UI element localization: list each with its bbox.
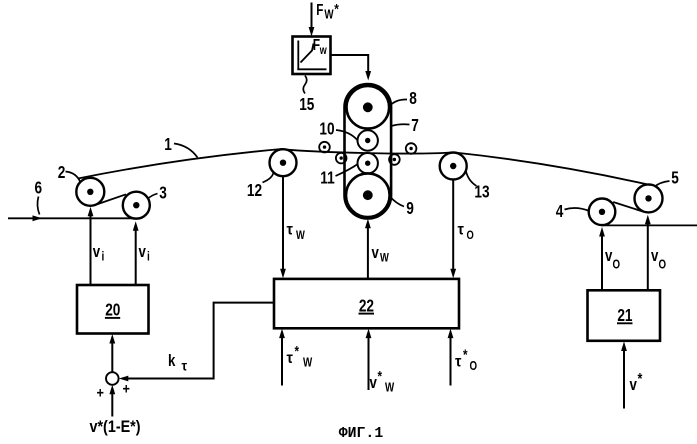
svg-text:W: W [296,229,306,242]
roller 2 [76,178,104,206]
svg-text:7: 7 [411,117,419,136]
leader for label 2 [66,172,81,182]
wire web S-wrap tangent rollers 2-3 [97,194,127,204]
leader for label 11 [336,164,358,176]
label v_O left [605,247,620,272]
svg-text:8: 8 [409,90,417,109]
wire tau*_W setpoint into block 22 [279,329,285,386]
label tau_W [287,221,306,243]
roller 12 [270,149,297,176]
wire web S-wrap tangent rollers 5-4 [613,202,644,212]
svg-text:1: 1 [164,136,172,155]
belt 7 [345,84,392,219]
wire v_i left from block 20 to roller 2 [88,207,94,285]
leader for label 6 [37,197,39,215]
label FW* [316,1,339,22]
svg-text:+: + [123,379,130,396]
block 21 [588,290,661,341]
svg-text:i: i [102,249,105,263]
svg-text:τ: τ [287,221,294,239]
leader for label 10 [336,130,358,140]
wire box 15 to roller 8 [331,55,372,81]
wire FW* input arrow [309,3,315,37]
svg-text:12: 12 [247,182,262,201]
wire v*(1-E*) into summing junction [109,385,115,417]
roller 9 [346,173,390,217]
svg-text:w: w [319,45,328,57]
svg-text:v: v [370,374,378,393]
idler roller outer-left [319,142,330,153]
svg-text:ФИГ.1: ФИГ.1 [339,426,384,442]
svg-text:3: 3 [159,184,167,203]
svg-text:v: v [605,247,613,266]
svg-text:v: v [630,376,638,395]
wire tau_O from roller 13 to block 22 [450,180,456,279]
wire v* into block 21 [621,342,627,409]
roller 10 [358,130,378,150]
label Fw inside box 15 [313,35,328,57]
idler roller inner-left [336,153,347,164]
leader for label 1 [174,144,198,158]
svg-text:i: i [147,249,150,263]
svg-text:11: 11 [320,169,335,188]
leader for label 15 [303,76,307,94]
leader for label 5 [655,181,670,187]
label v_O right [651,247,666,272]
svg-text:O: O [467,229,474,242]
svg-text:O: O [470,360,478,373]
wire tau_W from roller 12 to block 22 [280,176,286,278]
leader for label 3 [148,194,158,200]
wire v_O left from block 21 to roller 4 [599,227,605,290]
svg-text:10: 10 [319,120,334,139]
svg-text:W: W [303,356,313,369]
wire v_O right from block 21 to roller 5 [645,215,651,291]
wire v*_W setpoint into block 22 [366,329,372,390]
svg-text:15: 15 [299,96,314,115]
wire summing junction to block 20 [109,334,115,372]
label v* [630,371,643,395]
wire web line 1 left span [78,149,283,179]
label v_i right [139,243,150,264]
limiter curve [301,44,314,63]
svg-text:W: W [385,381,395,394]
label v*_W [370,368,395,395]
roller 4 [589,199,616,226]
roller 13 [440,153,467,180]
label v_W [372,244,390,265]
svg-text:v: v [651,247,659,266]
svg-text:6: 6 [35,179,43,198]
block 22 [274,279,459,328]
leader for label 8 [389,99,407,106]
idler roller inner-right [389,154,400,165]
roller 5 [635,184,663,212]
svg-text:*: * [638,371,643,389]
wire v_i right from block 20 to roller 3 [133,221,139,285]
svg-text:W: W [380,251,390,264]
svg-text:τ: τ [455,353,462,371]
svg-text:k: k [168,352,176,371]
block 20 [77,285,149,334]
svg-text:v: v [93,243,101,262]
svg-text:τ: τ [458,221,465,239]
svg-text:v: v [139,243,147,262]
wire web line 6 horizontal left [8,215,140,221]
leader for label 4 [565,208,589,211]
svg-text:v: v [372,244,380,263]
svg-text:τ: τ [182,358,188,374]
leader for label 7 [392,124,410,126]
svg-text:*: * [378,368,383,385]
svg-text:4: 4 [556,203,564,222]
roller 11 [358,153,378,173]
roller 3 [123,192,150,219]
svg-text:5: 5 [671,169,679,188]
leader for label 9 [390,196,404,206]
svg-text:v*(1-E*): v*(1-E*) [90,418,141,436]
wire tau*_O setpoint into block 22 [448,329,454,386]
roller 8 [347,86,390,129]
wire web middle span [283,149,453,153]
label tau*_O [455,346,477,373]
svg-text:τ: τ [287,349,294,367]
svg-text:+: + [97,383,104,400]
svg-text:13: 13 [474,183,489,202]
svg-text:*: * [463,346,468,363]
block 15 limiter box [293,37,331,75]
svg-text:*: * [295,343,300,360]
svg-text:F: F [316,1,323,18]
wire web line 1 right span [453,152,650,185]
svg-text:9: 9 [406,200,414,219]
label k_tau [168,352,187,374]
svg-text:2: 2 [58,164,66,183]
limiter graph axes [297,41,326,70]
summing junction [106,372,119,385]
label v_i left [93,243,105,264]
wire web exit line right [602,224,697,226]
leader for label 12 [263,172,274,182]
idler roller outer-right [406,143,417,154]
leader for label 13 [466,171,477,186]
svg-text:W: W [324,9,334,22]
label tau_O [458,221,474,243]
label tau*_W [287,343,313,370]
svg-text:O: O [613,258,621,271]
wire v_W from roller 9 to block 22 [365,219,371,279]
wire k_tau from block 22 to summing junction [119,303,274,382]
svg-text:O: O [659,258,667,271]
